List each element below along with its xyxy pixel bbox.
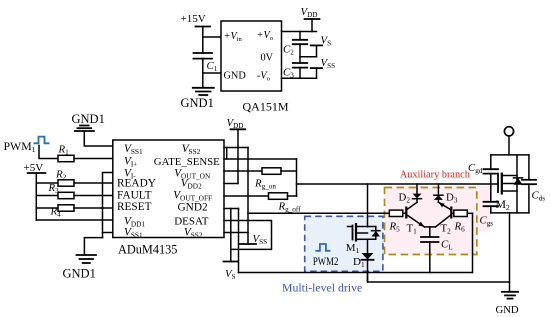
- wire M2 drain node: [491, 154, 529, 156]
- PWM1 pulse waveform glyph: [34, 137, 50, 144]
- wire R6 to rail drop: [467, 212, 472, 214]
- svg-text:READY: READY: [117, 177, 156, 189]
- svg-text:DESAT: DESAT: [174, 215, 209, 227]
- diode D1 label: [353, 256, 365, 269]
- pin label FAULT: [117, 190, 152, 202]
- wire R3 to FAULT pin: [74, 195, 113, 197]
- capacitor C3 label: [283, 67, 294, 80]
- multi-level drive caption: [282, 281, 362, 295]
- capacitor C2 label: [283, 44, 294, 57]
- wire VSS vertical to VSS terminal: [247, 148, 249, 245]
- DC-DC converter QA151M body: [221, 21, 282, 91]
- pin label GND: [224, 71, 247, 82]
- svg-text:ADuM4135: ADuM4135: [118, 243, 177, 257]
- ADuM4135 part label: [118, 243, 177, 257]
- wire +15V rail to +Vin pin: [203, 36, 221, 38]
- wire source rail (upper): [239, 272, 473, 274]
- resistor R3: [58, 192, 74, 198]
- wire C3 bottom / -Vo: [282, 68, 317, 79]
- svg-text:QA151M: QA151M: [243, 100, 289, 114]
- wire GND1 to VSS1 pin 1: [84, 131, 113, 146]
- capacitor Cds label: [532, 190, 546, 203]
- pin label VDD1: [124, 215, 145, 228]
- node VS terminal (top section): [311, 45, 322, 56]
- wire VOUT_ON to Rg_on: [224, 170, 262, 172]
- wire +5V to R3: [36, 195, 58, 197]
- wire stub to VS terminal: [230, 209, 232, 262]
- node VDD terminal label (driver side): [227, 117, 244, 130]
- resistor Rg_off: [269, 193, 288, 200]
- svg-text:FAULT: FAULT: [117, 190, 152, 202]
- pin label VI-: [124, 168, 136, 181]
- resistor R2: [58, 180, 74, 186]
- capacitor C3: [293, 63, 307, 68]
- node +15V terminal bar: [196, 26, 211, 28]
- transistor T2 label: [441, 223, 452, 236]
- capacitor Cgs: [484, 184, 499, 213]
- wire M2 source node: [491, 212, 529, 214]
- svg-text:PWM2: PWM2: [313, 256, 339, 268]
- svg-text:GND2: GND2: [178, 201, 208, 213]
- capacitor C1 value label: [207, 60, 218, 73]
- node +15V terminal label: [181, 13, 206, 25]
- wire +5V to R2: [36, 182, 58, 184]
- node +5V terminal bar: [28, 172, 46, 174]
- PWM2 pulse waveform glyph: [315, 244, 330, 251]
- svg-text:GND: GND: [224, 71, 247, 82]
- pin label 0V: [261, 53, 274, 64]
- capacitor Cgd label: [468, 162, 483, 175]
- pin label +Vin: [224, 31, 243, 43]
- wire mid tap to VS terminal: [300, 56, 317, 58]
- wire +Vo output: [282, 31, 317, 33]
- ground GND1 symbol (below ADuM4135): [77, 255, 97, 263]
- wire stub junction at pin16: [226, 148, 228, 160]
- pin label GATE_SENSE: [154, 156, 220, 168]
- svg-text:GATE_SENSE: GATE_SENSE: [154, 156, 220, 168]
- pin label VSS2 (pin16): [182, 143, 201, 156]
- wire +5V to VDD1 pin: [36, 219, 113, 221]
- node VDD terminal bar (top): [305, 19, 320, 32]
- node VS terminal bar (driver side): [224, 261, 239, 263]
- pin label GND2: [178, 201, 208, 213]
- ground GND1 label (below ADuM4135): [63, 267, 96, 281]
- resistor R1: [58, 155, 74, 161]
- resistor Rg_on label: [254, 178, 276, 191]
- wire VSS2 pin9 to VSS drop: [224, 232, 248, 234]
- node VSS terminal (top section): [311, 68, 322, 78]
- resistor R6: [454, 210, 468, 216]
- wire VDD2 pin to VDD terminal: [224, 183, 238, 185]
- diode M2 body diode: [514, 178, 523, 185]
- auxiliary branch caption: [400, 169, 471, 180]
- pin label DESAT: [174, 215, 209, 227]
- pin label VOUT_OFF: [173, 190, 212, 203]
- wire +Vo rail down to C2: [299, 32, 301, 40]
- node VSS terminal label: [253, 233, 268, 246]
- signal label PWM1: [4, 139, 36, 154]
- svg-text:+15V: +15V: [181, 13, 206, 25]
- transistor T1: [406, 202, 424, 227]
- resistor R6 label: [454, 221, 466, 234]
- ground GND symbol (bottom right): [502, 292, 518, 299]
- signal label PWM2: [313, 256, 339, 268]
- capacitor Cgs label: [480, 215, 494, 228]
- diode M1 body diode: [368, 227, 381, 240]
- transistor M2 (SiC MOSFET): [498, 155, 517, 213]
- auxiliary branch highlight fill: [385, 186, 478, 255]
- svg-text:Auxiliary branch: Auxiliary branch: [400, 169, 471, 180]
- wire C2 to C3: [299, 44, 301, 63]
- wire GATE_SENSE to gate bus: [224, 158, 297, 160]
- pin label RESET: [117, 201, 152, 213]
- wire VSS2 pin16 to VSS drop: [224, 147, 248, 149]
- wire Rg_on to gate bus: [281, 170, 297, 172]
- pin label VDD2: [181, 178, 202, 191]
- svg-text:RESET: RESET: [117, 201, 152, 213]
- transistor T2: [436, 202, 452, 227]
- wire emitter node: [425, 227, 436, 237]
- wire CL to source rail: [429, 242, 431, 273]
- node VS terminal label (top section): [321, 35, 332, 48]
- wire R4 to RESET pin: [74, 207, 113, 209]
- wire R6 to source rail: [472, 213, 474, 272]
- resistor R5: [389, 210, 403, 216]
- ground GND1 label (under C1): [181, 96, 214, 110]
- wire C1 bottom to ground: [202, 59, 204, 88]
- resistor R3 label: [48, 182, 60, 195]
- wire VSS net to R5: [248, 212, 389, 214]
- wire PWM1 to R1: [39, 146, 58, 159]
- svg-text:GND1: GND1: [181, 96, 214, 110]
- pin label READY: [117, 177, 156, 189]
- wire M1 source to D1: [367, 239, 369, 253]
- wire VOUT_OFF to Rg_off: [224, 195, 269, 197]
- resistor R1 label: [58, 144, 70, 157]
- capacitor CL: [421, 237, 439, 242]
- wire VSS1 pin 8 to ground trunk: [103, 232, 113, 234]
- resistor R2 label: [55, 169, 67, 182]
- resistor Rg_on: [262, 168, 281, 175]
- wire R2 to READY pin: [74, 182, 113, 184]
- svg-text:GND1: GND1: [72, 112, 105, 126]
- capacitor CL label: [441, 239, 453, 252]
- wire M2 source to GND: [509, 213, 511, 292]
- svg-text:Multi-level drive: Multi-level drive: [282, 281, 362, 295]
- wire gate node down to M1 drain: [367, 184, 369, 227]
- node VS terminal label (driver side): [225, 268, 236, 281]
- diode D3: [434, 184, 443, 202]
- transistor M1 (MOSFET): [348, 223, 368, 242]
- resistor R4: [58, 205, 74, 211]
- diode D3 label: [446, 192, 458, 205]
- svg-text:GND1: GND1: [63, 267, 96, 281]
- wire gate bus vertical: [296, 159, 298, 196]
- pin label VOUT_ON: [174, 168, 211, 181]
- pin label -Vo: [257, 71, 270, 83]
- wire DESAT loop: [224, 221, 272, 250]
- node +5V terminal label: [24, 162, 44, 174]
- diode D2: [413, 184, 422, 202]
- transistor M1 label: [346, 242, 360, 255]
- svg-text:+5V: +5V: [24, 162, 44, 174]
- pin label +Vo: [257, 30, 274, 42]
- wire Rg_off to gate bus: [288, 195, 297, 197]
- node VDD terminal label (top): [301, 6, 318, 19]
- node VDD terminal bar (driver side): [231, 129, 246, 183]
- capacitor Cgd: [484, 155, 499, 184]
- node drain terminal circle: [504, 127, 513, 136]
- wire D1 to source rail: [367, 260, 369, 282]
- ground GND1 (under C1): [193, 88, 214, 95]
- pin label VSS1 (pin1): [124, 143, 143, 156]
- resistor R4 label: [50, 206, 62, 219]
- wire +5V rail down: [35, 173, 37, 220]
- diode D1: [362, 253, 374, 260]
- diode D2 label: [399, 192, 411, 205]
- node VSS terminal label (top section): [321, 57, 336, 70]
- wire trunk to GND1 (bottom): [84, 238, 102, 255]
- wire drain terminal down: [508, 136, 510, 155]
- capacitor Cds: [522, 155, 536, 213]
- wire +5V to R4: [36, 207, 58, 209]
- ground GND1 label (above ADuM4135): [72, 112, 105, 126]
- multi-level drive dashed box: [305, 216, 383, 271]
- gate driver IC ADuM4135 body: [113, 140, 224, 238]
- auxiliary branch dashed box: [385, 188, 477, 255]
- svg-text:GND: GND: [496, 304, 519, 316]
- wire GND2 pin to VS rail: [224, 208, 239, 210]
- node VSS terminal bar: [240, 243, 256, 245]
- wire VI- pin to ground trunk: [103, 173, 113, 238]
- svg-text:PWM1: PWM1: [4, 139, 36, 154]
- resistor Rg_off label: [278, 201, 302, 214]
- wire R1 to VI+ pin: [74, 158, 113, 160]
- pin label VI+: [124, 156, 137, 169]
- wire R5 to T1 base: [403, 212, 407, 214]
- pin label VSS1 (pin8): [124, 226, 143, 239]
- QA151M part label: [243, 100, 289, 114]
- svg-text:0V: 0V: [261, 53, 274, 64]
- wire gate node to M2 gate: [297, 183, 499, 185]
- transistor M2 label: [496, 197, 511, 212]
- wire source rail to GND (lower): [368, 273, 510, 283]
- capacitor C1: [194, 53, 213, 59]
- wire GND pin of QA151M to ground rail: [203, 72, 221, 74]
- ground GND label (bottom right): [496, 304, 519, 316]
- wire +15V stem down to C1: [202, 27, 204, 54]
- ground GND1 inverted symbol (above ADuM4135): [75, 126, 94, 132]
- wire T2 base to R6: [451, 212, 454, 214]
- capacitor C2: [293, 40, 307, 44]
- wire GND2 down to source rail: [238, 209, 240, 273]
- pin label VSS2 (pin9): [184, 226, 203, 239]
- transistor T1 label: [407, 223, 418, 236]
- resistor R5 label: [389, 221, 401, 234]
